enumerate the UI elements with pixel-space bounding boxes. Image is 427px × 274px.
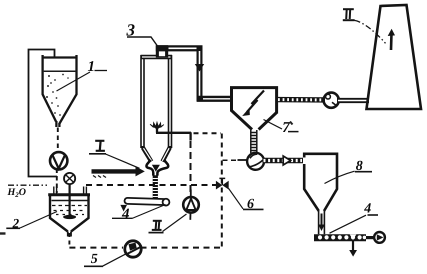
dashed branch: corner to the right	[194, 132, 222, 134]
spray dryer column 3 walls	[141, 55, 172, 162]
wire into blower from left	[238, 159, 247, 161]
conveyor end rotary valve (circle with triangle)	[374, 232, 385, 243]
valve 6	[216, 178, 229, 189]
tap to blower	[223, 159, 238, 161]
feed hopper 1 (vessel)	[42, 55, 78, 127]
stray scan mark bottom left	[0, 232, 6, 234]
flow arrow on pipe	[283, 156, 290, 165]
heater/pump II (circle with X)	[183, 190, 199, 220]
bottom dashed line left	[69, 247, 123, 249]
dryer bottom goblet	[146, 160, 168, 176]
cone taper	[143, 148, 152, 162]
spray nozzle inside column	[150, 122, 164, 129]
leader dash-dot to stack	[355, 20, 386, 43]
cyclone outlet ribbed stub	[251, 130, 258, 153]
label 5	[84, 252, 126, 267]
hopper 1 liquid level line	[44, 70, 76, 72]
tank outlet dashed down	[68, 233, 70, 248]
feed line I thick arrow	[92, 166, 145, 177]
dashed branch: nozzle line corner down to heater	[190, 133, 192, 197]
label II (bottom)	[149, 214, 187, 233]
agitator shaft and paddle	[63, 185, 76, 220]
H2O dash-dot line to tank	[8, 184, 47, 186]
blower below cyclone	[247, 153, 264, 170]
label 3	[126, 21, 162, 52]
label 4 (left)	[112, 205, 166, 223]
vertical dashed line at valve column	[221, 134, 223, 248]
label 2	[6, 212, 57, 231]
gas pipe fan to stack	[337, 98, 369, 103]
cyclone 7	[232, 88, 277, 130]
label 8	[325, 159, 373, 184]
hopper 8 outlet stub with arrow	[319, 211, 325, 234]
wire hopper1 outlet dashed down to pump	[57, 128, 59, 153]
tank 2 liquid	[52, 201, 88, 215]
bottom dashed line right	[141, 247, 222, 249]
lightning arrow inside cyclone	[242, 91, 264, 117]
svg-text:4: 4	[121, 207, 130, 223]
stack up arrow	[388, 29, 395, 50]
bottom horizontal pipe into cyclone	[197, 96, 233, 102]
hopper 1 fill dots	[46, 74, 69, 116]
screw conveyor 4 (bottom right)	[314, 234, 375, 239]
label 4 (right)	[330, 202, 379, 234]
wire from hopper F1 top to left downcomer	[29, 50, 58, 177]
top horizontal pipe	[156, 45, 203, 51]
label II (top, exhaust)	[343, 9, 355, 20]
exhaust stack	[367, 5, 422, 109]
hatched pipe blower to hopper 8	[263, 158, 304, 163]
mixing tank 2	[48, 195, 90, 237]
svg-text:5: 5	[91, 252, 98, 267]
flow arrow on downcomer	[195, 64, 204, 72]
stray scan mark near hopper 8	[290, 122, 293, 125]
label I	[89, 141, 140, 169]
label 1	[57, 59, 108, 91]
pump P1 (circle with triangle)	[50, 152, 67, 169]
svg-text:7: 7	[282, 120, 290, 136]
agitator motor (circle with X)	[64, 173, 75, 184]
exhaust fan	[324, 93, 339, 108]
gas pipe cyclone to fan	[277, 97, 325, 103]
main horizontal dashed line	[86, 184, 220, 186]
label 6	[229, 188, 264, 212]
screw conveyor 4 under dryer	[124, 197, 169, 205]
riser pipe from column top	[156, 45, 168, 57]
product down arrow under conveyor	[349, 240, 357, 257]
tank 2 inlet stubs	[54, 187, 87, 195]
nozzle line through wall to dashed branch	[156, 129, 191, 133]
wire pump P1 down to tank inlet	[56, 169, 58, 194]
pump 5	[125, 241, 141, 257]
hopper 8	[304, 154, 337, 211]
vertical downcomer pipe	[197, 46, 203, 102]
label 7	[264, 120, 299, 137]
dryer stem ribbed	[153, 175, 158, 198]
